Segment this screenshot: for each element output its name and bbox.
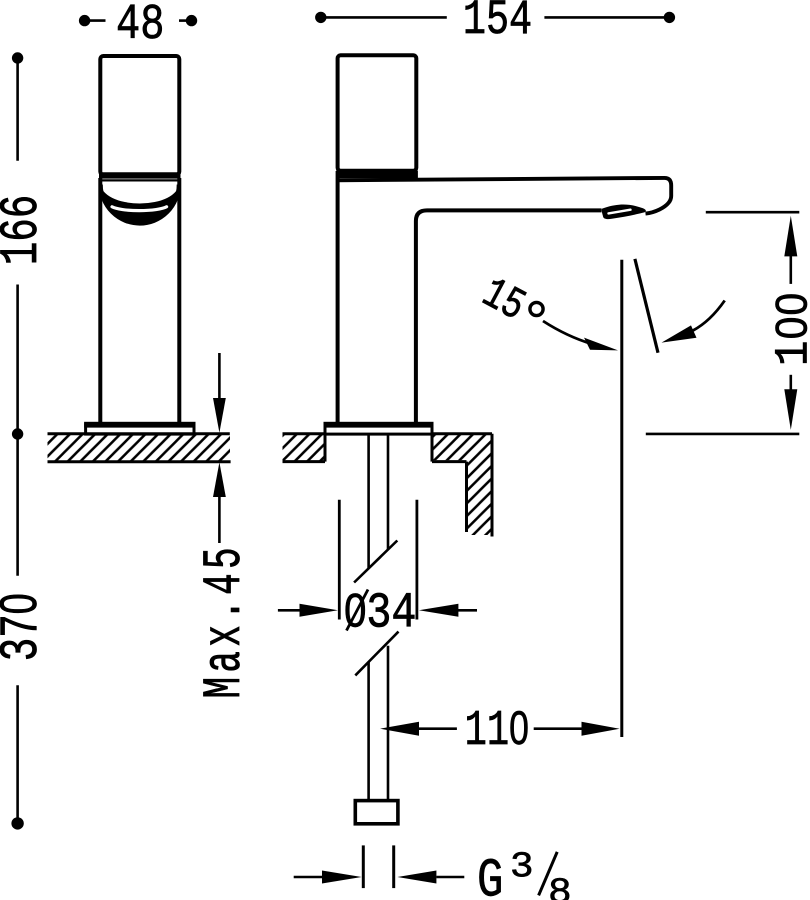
front view spout crescent <box>101 184 179 224</box>
side view cap bottom thick band <box>336 171 418 179</box>
svg-text:3: 3 <box>510 847 534 888</box>
side view aerator tip <box>602 205 646 220</box>
svg-text:100: 100 <box>767 292 810 366</box>
15 degree left arc arrow <box>543 321 618 350</box>
side view spout underside and right body edge <box>416 210 602 424</box>
G 3/8 text <box>477 847 572 900</box>
dimension 100 <box>646 212 810 434</box>
svg-text:Max.45: Max.45 <box>194 543 255 698</box>
Max.45 dimension arrows <box>213 353 226 543</box>
dimension 110 <box>380 701 620 760</box>
front view body sides <box>100 178 179 425</box>
side view cap <box>338 55 417 171</box>
pipe break slashes <box>354 541 398 676</box>
front view base plate <box>84 423 195 434</box>
15 degree text <box>474 268 543 332</box>
side view countertop right band with L leg <box>432 434 492 537</box>
side view base plate <box>324 423 434 434</box>
dimension 48 <box>79 0 197 54</box>
dimension text 166 <box>0 195 53 266</box>
supply pipe <box>369 434 388 801</box>
dimension Ø34 <box>278 500 477 642</box>
front view cap <box>100 56 179 175</box>
supply nut <box>355 801 398 824</box>
15 degree reference vertical line <box>620 260 623 737</box>
left vertical dimension line with dots <box>11 52 23 829</box>
Max.45 text <box>194 543 255 698</box>
side view spout top outline <box>336 178 671 214</box>
svg-text:110: 110 <box>465 701 529 760</box>
front view countertop <box>48 434 231 462</box>
front view cap bottom thick band <box>99 175 181 180</box>
dimension text 370 <box>0 593 53 661</box>
G 3/8 dimension <box>294 845 465 888</box>
svg-text:8: 8 <box>548 873 572 900</box>
svg-text:370: 370 <box>0 593 53 661</box>
svg-text:G: G <box>477 850 503 900</box>
15 degree right arc arrow <box>662 301 725 343</box>
15 degree slanted line <box>635 259 658 353</box>
svg-text:154: 154 <box>463 0 532 49</box>
side view left edge <box>336 171 340 425</box>
side view countertop left band <box>283 434 326 462</box>
svg-text:48: 48 <box>116 0 164 54</box>
dimension 154 <box>315 0 675 49</box>
svg-text:166: 166 <box>0 195 53 266</box>
